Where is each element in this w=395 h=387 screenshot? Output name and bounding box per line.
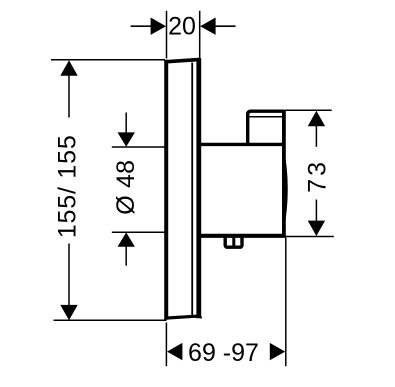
dimension 69-97: value label	[188, 339, 259, 367]
dimension 73: top arrow	[308, 111, 325, 126]
dimension 73: upper line segment	[315, 126, 317, 147]
dimension 73: bottom extension line	[285, 236, 334, 238]
dimension 20: right arrow and line	[200, 18, 235, 35]
dimension diameter 48: top arrow	[118, 132, 135, 146]
dimension 155/155: upper line segment	[68, 75, 70, 118]
valve body bottom edge	[199, 234, 286, 238]
valve body right face	[282, 110, 286, 236]
dimension 20: left arrow and line	[131, 18, 166, 35]
dimension 20: value label	[168, 13, 196, 41]
dimension diameter 48: value label	[112, 160, 140, 215]
svg-text:Ø 48: Ø 48	[112, 160, 140, 215]
dimension 73: bottom arrow	[308, 221, 325, 236]
wall plate front face	[164, 60, 168, 320]
dimension 69-97: right arrow	[270, 343, 285, 360]
svg-text:155/ 155: 155/ 155	[53, 134, 81, 238]
valve body right bulge arc	[284, 146, 288, 232]
dimension 73: lower line segment	[315, 200, 317, 222]
svg-text:73: 73	[303, 159, 331, 193]
dimension 155/155: lower line segment	[68, 244, 70, 306]
stop handle stub seam line	[250, 116, 283, 118]
svg-text:69 -97: 69 -97	[188, 339, 259, 367]
dimension 155/155: top extension line	[51, 59, 165, 61]
dimension 20: right extension line	[199, 11, 201, 62]
wall plate bottom edge	[165, 316, 200, 318]
dimension 155/155: bottom arrow	[60, 305, 77, 320]
wall plate top edge	[165, 59, 200, 61]
dimension diameter 48: bottom feature line	[112, 231, 165, 233]
dimension 155/155: top arrow	[60, 60, 77, 75]
dimension 73: top extension line	[285, 109, 332, 111]
wall plate inner edge line	[191, 63, 193, 316]
bottom clip tab divider	[232, 236, 235, 247]
stop handle stub outline	[248, 111, 284, 146]
dimension 73: value label	[303, 159, 331, 193]
dimension 69-97: left extension line	[165, 323, 167, 367]
valve body top edge	[199, 143, 284, 146]
dimension diameter 48: top tail line	[125, 113, 127, 134]
dimension 155/155: bottom extension line	[54, 319, 167, 321]
dimension diameter 48: bottom arrow	[118, 232, 135, 246]
dimension 155/155: value label	[53, 134, 81, 238]
wall plate back face	[196, 58, 201, 318]
bottom clip tab	[225, 236, 242, 247]
dimension 69-97: right extension line	[285, 238, 287, 367]
dimension diameter 48: bottom tail line	[125, 246, 127, 265]
dimension diameter 48: top feature line	[112, 146, 165, 148]
dimension 20: left extension line	[166, 11, 168, 59]
dimension 69-97: left arrow	[167, 343, 182, 360]
svg-text:20: 20	[168, 13, 196, 41]
